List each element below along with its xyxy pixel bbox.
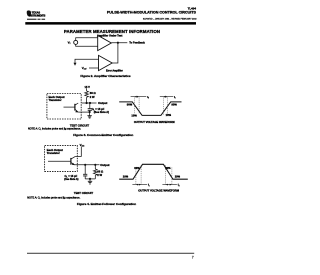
node emitter junction (89, 111, 91, 113)
tf arrows (131, 96, 147, 98)
wire bottom rail (85, 178, 95, 180)
wire U1 output (111, 42, 127, 44)
wire error amplifier top input (75, 59, 99, 63)
node output junction (89, 102, 91, 104)
svg-text:r: r (175, 98, 176, 100)
svg-text:68 Ω: 68 Ω (97, 169, 104, 173)
svg-text:To Feedback: To Feedback (129, 41, 145, 45)
svg-text:NOTE A: CL includes probe and: NOTE A: CL includes probe and jig capaci… (28, 128, 81, 132)
wire VI bottom to inverting input (76, 44, 98, 46)
ground fig4 (88, 181, 92, 184)
svg-text:OUTPUT VOLTAGE WAVEFORM: OUTPUT VOLTAGE WAVEFORM (134, 120, 176, 124)
svg-text:90%: 90% (134, 166, 140, 170)
wire resistor to bottom rail (94, 175, 96, 179)
wire capacitor to emitter node (89, 111, 91, 112)
waveform trace fig3 (119, 102, 181, 116)
wire node to capacitor (89, 103, 91, 108)
svg-text:PULSE-WIDTH-MODULATION CONTROL: PULSE-WIDTH-MODULATION CONTROL CIRCUITS (107, 10, 197, 14)
dashed marker tr left (162, 97, 164, 115)
capacitor CL 15pF (88, 109, 92, 111)
wire node to ground (89, 112, 91, 116)
ground (87, 116, 91, 118)
svg-text:7: 7 (192, 255, 194, 259)
wire VI top to noninverting input (76, 38, 98, 41)
dashed marker tr right (167, 97, 169, 115)
svg-text:Transistor: Transistor (49, 98, 62, 102)
svg-text:Transistor: Transistor (47, 151, 60, 155)
wire capacitor to bottom rail (84, 176, 86, 179)
wire error amplifier bottom input (89, 67, 99, 69)
svg-text:r: r (149, 185, 150, 187)
resistor R1 68 ohm (85, 91, 89, 97)
svg-text:Output: Output (100, 163, 109, 167)
dashed marker tf left fig4 (165, 165, 167, 184)
transistor Q1 (64, 103, 79, 112)
svg-text:68 Ω: 68 Ω (90, 91, 97, 95)
wire emitter to node (78, 111, 89, 113)
svg-text:2 W: 2 W (90, 95, 95, 99)
svg-text:f: f (148, 98, 149, 100)
op-amp U2 error amplifier (99, 55, 113, 70)
dashed marker tf left (133, 97, 135, 114)
waveform trace fig4 (119, 164, 188, 179)
wire collector to node (82, 102, 90, 104)
fig3 waveform (119, 95, 181, 124)
node collector junction (86, 102, 88, 104)
svg-text:NOTE A: CL includes probe and: NOTE A: CL includes probe and jig capaci… (27, 196, 80, 200)
resistor R2 68 ohm fig4 (94, 169, 98, 175)
svg-text:(See Note A): (See Note A) (94, 110, 109, 114)
svg-text:2 W: 2 W (97, 173, 102, 177)
footer rule (27, 252, 194, 255)
transistor Q2 (48, 156, 75, 165)
wire to ground fig4 (89, 179, 91, 181)
wire node to resistor fig4 (94, 165, 96, 169)
svg-text:(See Note A): (See Note A) (64, 178, 78, 181)
source VI circle (74, 40, 78, 44)
svg-text:TEST CIRCUIT: TEST CIRCUIT (74, 191, 94, 195)
dashed box each output transistor fig4 (45, 145, 78, 171)
node capacitor branch (84, 164, 86, 166)
svg-text:SLVS074D – JANUARY 1983 – REVI: SLVS074D – JANUARY 1983 – REVISED FEBRUA… (143, 18, 198, 21)
svg-text:INSTRUMENTS: INSTRUMENTS (29, 14, 46, 17)
arrow down on top input wire (74, 63, 77, 66)
op-amp U1 amplifier under test (98, 35, 112, 50)
wire junction down to error amplifier output (112, 43, 118, 63)
svg-text:PARAMETER MEASUREMENT INFORMAT: PARAMETER MEASUREMENT INFORMATION (64, 29, 160, 34)
svg-text:CC: CC (82, 146, 85, 148)
header small text under logo (27, 19, 45, 20)
svg-text:90%: 90% (127, 103, 133, 107)
dashed marker tf right fig4 (171, 168, 173, 185)
svg-text:I: I (70, 43, 71, 45)
dashed marker tr right fig4 (140, 165, 142, 184)
dashed marker tf right (138, 97, 140, 114)
wire to output label (90, 102, 97, 104)
svg-text:ref: ref (84, 69, 87, 71)
svg-text:Figure 4. Emitter-Follower Con: Figure 4. Emitter-Follower Configuration (77, 202, 136, 206)
wire 15V supply (86, 88, 88, 91)
wire resistor to output node (86, 97, 88, 103)
svg-text:f: f (179, 185, 180, 187)
header thick rule (25, 22, 196, 25)
capacitor CL fig4 (83, 174, 87, 176)
svg-text:OUTPUT VOLTAGE WAVEFORM: OUTPUT VOLTAGE WAVEFORM (138, 189, 180, 193)
svg-text:90%: 90% (165, 166, 171, 170)
node ground junction (89, 178, 91, 180)
tf arrows fig4 (162, 184, 177, 186)
svg-text:90%: 90% (171, 102, 177, 106)
node feedback junction (117, 42, 119, 44)
TI logo symbol (27, 10, 32, 16)
svg-text:Figure 2. Amplifier Characteri: Figure 2. Amplifier Characteristics (80, 74, 131, 78)
wire emitter to output (75, 164, 100, 166)
wire node to capacitor fig4 (84, 165, 86, 174)
svg-text:10%: 10% (166, 113, 172, 117)
tr arrows fig4 (132, 184, 147, 186)
svg-text:Output: Output (98, 101, 107, 105)
node resistor branch (94, 164, 96, 166)
tr arrows (160, 96, 173, 98)
wire collector to VCC (75, 147, 81, 157)
svg-text:10%: 10% (131, 114, 137, 118)
svg-text:15 V: 15 V (85, 85, 91, 89)
TI logo wordmark TEXAS INSTRUMENTS (29, 11, 46, 18)
dashed marker tr left fig4 (135, 168, 137, 185)
svg-text:Error Amplifier: Error Amplifier (106, 70, 123, 73)
svg-text:10%: 10% (175, 175, 181, 179)
fig4 waveform (119, 164, 188, 192)
svg-text:Figure 3. Common-Emitter Confi: Figure 3. Common-Emitter Configuration (73, 133, 133, 137)
svg-text:10%: 10% (123, 175, 129, 179)
dashed box each output transistor (47, 94, 81, 120)
